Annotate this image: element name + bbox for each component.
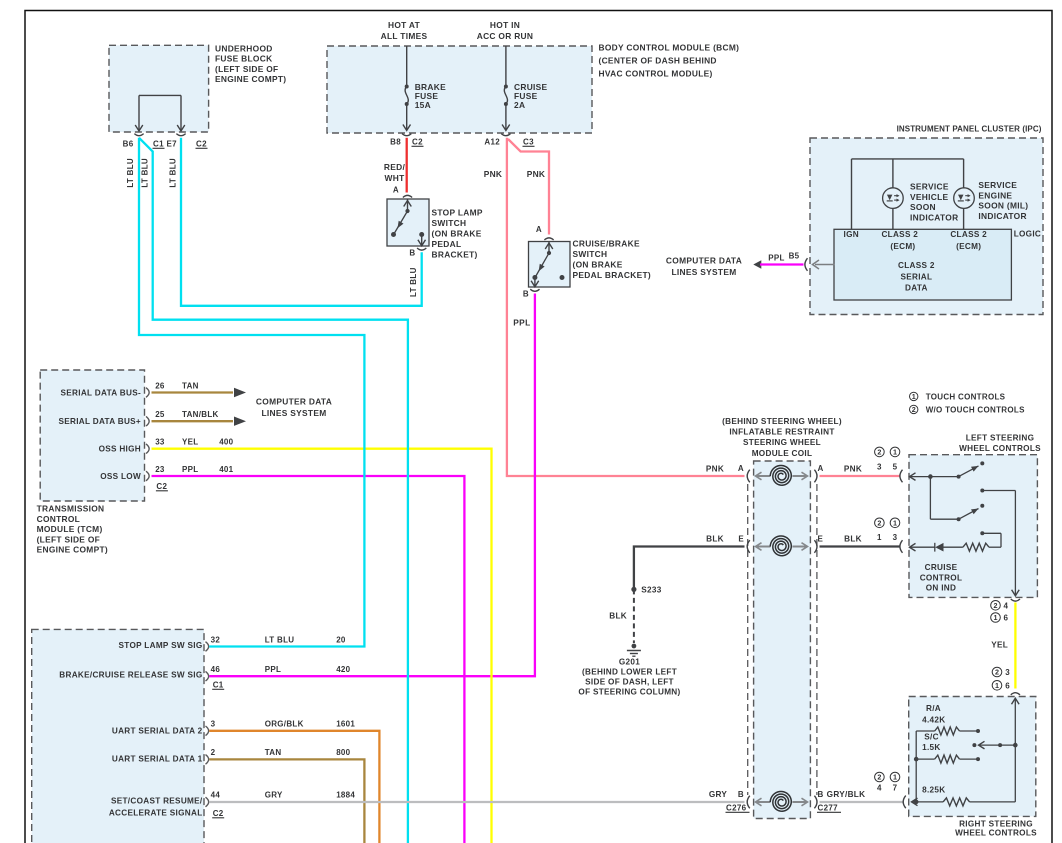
svg-text:CLASS 2: CLASS 2 [898, 261, 935, 270]
svg-text:HOT IN: HOT IN [490, 20, 520, 30]
right controls top connector arc [1011, 693, 1020, 695]
connector arc B6 [134, 134, 143, 136]
svg-text:COMPUTER DATA: COMPUTER DATA [256, 397, 332, 407]
stop lamp switch internal contacts [407, 199, 409, 211]
svg-text:1: 1 [995, 681, 999, 690]
arrow down B6 [135, 125, 143, 131]
resistor 8.25K [912, 798, 918, 806]
transmission control module box [40, 370, 144, 501]
cruise fuse feed wire [505, 46, 507, 85]
connector arc A12 [501, 134, 510, 136]
wire BLK coil to left controls row E [820, 545, 900, 547]
wire PPL to computer data lines [760, 263, 804, 265]
svg-text:STEERING WHEEL: STEERING WHEEL [743, 438, 821, 447]
coil module box [754, 461, 811, 819]
svg-text:GRY/BLK: GRY/BLK [827, 790, 866, 799]
svg-text:B: B [523, 290, 529, 299]
IPC internal bus wires [852, 158, 964, 160]
output node and wire to bottom [980, 489, 984, 493]
underhood fuse block box [109, 45, 209, 132]
svg-text:15A: 15A [415, 100, 431, 110]
left rail [915, 731, 917, 802]
svg-text:IGN: IGN [844, 230, 859, 239]
svg-text:C2: C2 [156, 482, 167, 491]
markers below left controls [991, 601, 1001, 611]
svg-text:WHEEL CONTROLS: WHEEL CONTROLS [959, 444, 1041, 453]
cruise switch B connector arc [530, 289, 539, 291]
svg-text:C2: C2 [412, 138, 423, 147]
svg-text:SWITCH: SWITCH [573, 249, 608, 259]
switch 1 lever [959, 466, 979, 477]
module pin arcs [206, 642, 209, 652]
svg-text:UART SERIAL DATA 2: UART SERIAL DATA 2 [112, 726, 203, 735]
switch 1 contact [980, 461, 984, 465]
cruise switch internal contacts [548, 242, 550, 254]
wiper arm wire [1013, 743, 1018, 748]
wire PPL from cruise switch B to BCM pin 46 [209, 294, 535, 677]
wire LT BLU from B6 to bottom [139, 138, 408, 843]
left controls row E arrow [910, 543, 916, 551]
svg-text:46: 46 [211, 665, 221, 674]
svg-text:CLASS 2: CLASS 2 [881, 230, 918, 239]
cruise on ind diode [934, 543, 936, 552]
svg-text:SERVICE: SERVICE [910, 182, 949, 192]
svg-text:COMPUTER DATA: COMPUTER DATA [666, 256, 742, 266]
svg-text:BRACKET): BRACKET) [432, 250, 478, 260]
left controls row A arrow [910, 473, 916, 481]
svg-text:S233: S233 [641, 586, 661, 595]
svg-text:SET/COAST RESUME/: SET/COAST RESUME/ [111, 796, 203, 805]
left steering wheel controls box [909, 455, 1037, 598]
svg-text:CRUISE: CRUISE [925, 563, 958, 572]
svg-text:S/C: S/C [924, 733, 939, 742]
svg-text:LOGIC: LOGIC [1014, 230, 1041, 239]
wire ORG/BLK 1601 uart serial data 2 [209, 731, 379, 843]
svg-text:(BEHIND STEERING WHEEL): (BEHIND STEERING WHEEL) [722, 417, 842, 426]
svg-text:WHT: WHT [385, 173, 406, 183]
svg-text:MODULE COIL: MODULE COIL [752, 449, 813, 458]
svg-text:(ON BRAKE: (ON BRAKE [432, 229, 482, 239]
svg-text:(ECM): (ECM) [956, 242, 981, 251]
svg-text:UART SERIAL DATA 1: UART SERIAL DATA 1 [112, 754, 203, 763]
IPC connector arc B5 [805, 258, 808, 271]
svg-text:(LEFT SIDE OF: (LEFT SIDE OF [37, 534, 100, 544]
svg-text:LT BLU: LT BLU [126, 158, 135, 188]
svg-text:SOON (MIL): SOON (MIL) [978, 201, 1028, 211]
coil connector arc B left [747, 796, 750, 809]
IPC internal arrow left [815, 264, 834, 266]
svg-text:FUSE BLOCK: FUSE BLOCK [215, 54, 272, 64]
svg-text:7: 7 [893, 784, 898, 793]
svg-text:TAN: TAN [182, 382, 199, 391]
right steering wheel controls box [909, 697, 1036, 817]
body control module box [327, 46, 592, 133]
coil spiral B [770, 791, 791, 811]
svg-text:B: B [818, 790, 824, 799]
svg-text:SERIAL DATA BUS+: SERIAL DATA BUS+ [58, 417, 141, 426]
svg-text:PPL: PPL [513, 318, 530, 328]
svg-text:LT BLU: LT BLU [409, 267, 418, 297]
svg-text:ORG/BLK: ORG/BLK [265, 720, 304, 729]
svg-text:ENGINE COMPT): ENGINE COMPT) [215, 74, 286, 84]
IPC logic inner box [834, 229, 1011, 300]
brake fuse feed wire [406, 46, 408, 85]
svg-text:B6: B6 [123, 140, 134, 149]
wire PPL oss low 401 [152, 476, 465, 843]
cruise on ind resistor [963, 543, 989, 551]
svg-text:2: 2 [995, 668, 999, 677]
coil connector arc A right [814, 470, 817, 483]
coil connector arc E left [747, 540, 750, 553]
wire BLK dashed to ground [633, 589, 635, 643]
svg-text:1: 1 [893, 773, 897, 782]
svg-text:A: A [738, 464, 744, 473]
svg-text:ACCELERATE SIGNAL: ACCELERATE SIGNAL [109, 808, 203, 817]
resistor S/C 1.5K [914, 757, 919, 762]
wire RED/WHT from B8 to stop lamp switch A [406, 138, 408, 193]
svg-text:400: 400 [219, 438, 233, 447]
svg-text:(BEHIND LOWER LEFT: (BEHIND LOWER LEFT [582, 667, 677, 676]
svg-text:1.5K: 1.5K [922, 743, 941, 752]
svg-text:2A: 2A [514, 100, 525, 110]
svg-text:1: 1 [893, 448, 897, 457]
svg-text:E7: E7 [167, 140, 178, 149]
svg-text:25: 25 [155, 410, 165, 419]
svg-text:GRY: GRY [709, 790, 728, 799]
svg-text:HVAC CONTROL MODULE): HVAC CONTROL MODULE) [599, 69, 713, 79]
svg-text:TAN: TAN [265, 748, 282, 757]
svg-text:PPL: PPL [768, 253, 784, 262]
svg-text:B5: B5 [789, 252, 800, 261]
svg-text:PPL: PPL [182, 465, 198, 474]
svg-text:WHEEL CONTROLS: WHEEL CONTROLS [955, 829, 1037, 838]
svg-text:33: 33 [155, 438, 165, 447]
svg-text:R/A: R/A [926, 704, 941, 713]
coil row A internal wire and arrows [757, 475, 771, 477]
svg-text:2: 2 [912, 405, 916, 414]
svg-text:PNK: PNK [484, 169, 503, 179]
wire TAN 800 uart serial data 1 [209, 759, 364, 843]
svg-text:1884: 1884 [336, 791, 355, 800]
svg-text:PNK: PNK [706, 465, 724, 474]
svg-text:INSTRUMENT PANEL CLUSTER (IPC): INSTRUMENT PANEL CLUSTER (IPC) [897, 125, 1042, 134]
svg-text:1: 1 [994, 613, 998, 622]
junction dot row A [928, 474, 933, 479]
svg-text:OSS HIGH: OSS HIGH [99, 445, 141, 454]
svg-text:SERIAL: SERIAL [900, 272, 932, 281]
svg-text:LT BLU: LT BLU [141, 158, 150, 188]
svg-text:800: 800 [336, 748, 350, 757]
svg-text:26: 26 [155, 382, 165, 391]
arrow down A12 [505, 127, 507, 131]
coil connector arc B right [814, 796, 817, 809]
wire TAN serial data bus- [152, 391, 234, 393]
svg-text:3: 3 [877, 462, 882, 471]
svg-text:CLASS 2: CLASS 2 [950, 230, 987, 239]
svg-text:E: E [818, 535, 824, 544]
svg-text:A: A [393, 186, 399, 195]
svg-text:G201: G201 [619, 657, 640, 666]
markers row E [875, 518, 885, 528]
ground G201 [632, 644, 637, 649]
svg-text:32: 32 [211, 636, 221, 645]
svg-text:LINES SYSTEM: LINES SYSTEM [671, 267, 736, 277]
arrow down E7 [177, 125, 185, 131]
legend touch controls [910, 392, 918, 400]
svg-text:23: 23 [155, 465, 165, 474]
svg-text:BLK: BLK [609, 612, 627, 621]
svg-text:INDICATOR: INDICATOR [910, 212, 958, 222]
svg-text:A: A [536, 225, 542, 234]
svg-text:OSS LOW: OSS LOW [100, 472, 141, 481]
svg-text:SWITCH: SWITCH [432, 218, 467, 228]
stop lamp switch A connector arc [403, 195, 412, 197]
svg-text:LT BLU: LT BLU [265, 636, 295, 645]
wire YEL oss high 400 [152, 449, 492, 843]
svg-text:GRY: GRY [265, 791, 283, 800]
svg-text:B: B [738, 790, 744, 799]
svg-text:YEL: YEL [991, 641, 1008, 650]
right controls input arrow up [1014, 698, 1016, 745]
markers row A [875, 447, 885, 457]
arrow to computer data lines [753, 260, 761, 268]
switch 2 lever [959, 509, 979, 520]
svg-text:1: 1 [893, 518, 897, 527]
markers row B [875, 772, 885, 782]
switch 1 pivot [957, 475, 961, 479]
wire GRY/BLK coil to right controls [820, 801, 903, 803]
instrument panel cluster box [810, 138, 1043, 315]
svg-text:20: 20 [336, 636, 346, 645]
svg-text:C2: C2 [196, 140, 207, 149]
wire PNK from A12 down to coil row A [507, 138, 745, 476]
svg-text:SERVICE: SERVICE [978, 180, 1017, 190]
svg-text:HOT AT: HOT AT [388, 20, 421, 30]
arrow down B8 [406, 127, 408, 131]
svg-text:DATA: DATA [905, 283, 928, 292]
svg-text:4.42K: 4.42K [922, 715, 945, 724]
svg-text:A12: A12 [484, 138, 500, 147]
svg-text:C2: C2 [213, 809, 224, 818]
svg-text:STOP LAMP: STOP LAMP [432, 208, 483, 218]
svg-text:(CENTER OF DASH BEHIND: (CENTER OF DASH BEHIND [599, 56, 717, 66]
right controls connector arc [903, 796, 906, 809]
coil spiral E [770, 536, 791, 556]
resistor tail to contact [989, 546, 1001, 548]
resistor R/A 4.42K [916, 730, 935, 732]
svg-text:SOON: SOON [910, 202, 936, 212]
svg-text:PNK: PNK [844, 465, 862, 474]
svg-text:2: 2 [877, 518, 881, 527]
svg-text:2: 2 [877, 448, 881, 457]
svg-text:RIGHT STEERING: RIGHT STEERING [959, 820, 1033, 829]
left controls connector arc row A [900, 470, 903, 483]
svg-text:CONTROL: CONTROL [37, 514, 81, 524]
wire PNK coil to left controls [820, 475, 900, 477]
svg-text:1: 1 [877, 533, 882, 542]
svg-text:ALL TIMES: ALL TIMES [381, 31, 428, 41]
svg-text:44: 44 [211, 791, 221, 800]
svg-text:3: 3 [893, 533, 898, 542]
wire GRY 1884 set/coast signal [209, 801, 744, 803]
svg-text:BLK: BLK [706, 535, 724, 544]
wire BLK to coil row E [634, 547, 745, 590]
svg-text:BRAKE/CRUISE RELEASE SW SIG: BRAKE/CRUISE RELEASE SW SIG [59, 670, 202, 679]
TCM pin arcs [146, 388, 149, 398]
service engine soon indicator lamp [954, 188, 975, 209]
svg-text:2: 2 [994, 601, 998, 610]
wire LT BLU 20 stop lamp sw sig [139, 138, 364, 647]
wire PNK branch to cruise/brake switch A [508, 139, 549, 235]
svg-text:ACC OR RUN: ACC OR RUN [477, 31, 534, 41]
svg-text:PNK: PNK [527, 169, 546, 179]
svg-text:ENGINE COMPT): ENGINE COMPT) [37, 545, 108, 555]
svg-text:TOUCH CONTROLS: TOUCH CONTROLS [926, 392, 1006, 401]
svg-text:3: 3 [1005, 668, 1010, 677]
connector arc B8 [402, 134, 411, 136]
svg-text:LT BLU: LT BLU [169, 158, 178, 188]
svg-text:ENGINE: ENGINE [978, 190, 1012, 200]
left controls connector arc row E [900, 540, 903, 553]
svg-text:UNDERHOOD: UNDERHOOD [215, 44, 273, 54]
stop lamp switch box [387, 199, 429, 246]
svg-text:B: B [409, 249, 415, 258]
svg-text:C1: C1 [213, 681, 224, 690]
svg-text:C277: C277 [818, 804, 839, 813]
connector arc E7 [176, 134, 185, 136]
coil connector arc A left [747, 470, 750, 483]
coil row B internal wire and arrows [757, 801, 771, 803]
svg-text:OF STEERING COLUMN): OF STEERING COLUMN) [578, 688, 680, 697]
svg-text:2: 2 [211, 748, 216, 757]
svg-text:CRUISE/BRAKE: CRUISE/BRAKE [573, 239, 640, 249]
cruise control module box [32, 629, 204, 843]
svg-text:C1: C1 [153, 140, 164, 149]
svg-text:(LEFT SIDE OF: (LEFT SIDE OF [215, 64, 278, 74]
switch 2 contact [980, 504, 984, 508]
svg-text:STOP LAMP SW SIG: STOP LAMP SW SIG [119, 641, 203, 650]
splice S233 [631, 587, 636, 592]
svg-text:LINES SYSTEM: LINES SYSTEM [261, 408, 326, 418]
svg-text:RED/: RED/ [384, 162, 406, 172]
svg-text:401: 401 [219, 465, 233, 474]
svg-text:LEFT STEERING: LEFT STEERING [966, 434, 1035, 443]
coil connector arc E right [814, 540, 817, 553]
svg-text:(ON BRAKE: (ON BRAKE [573, 260, 623, 270]
svg-text:A: A [818, 464, 824, 473]
svg-text:4: 4 [1004, 601, 1009, 610]
svg-text:6: 6 [1004, 614, 1009, 623]
left controls bottom connector arc [1011, 599, 1020, 601]
wire LT BLU stop lamp B to E7 [181, 138, 422, 306]
svg-text:CONTROL: CONTROL [920, 573, 963, 582]
svg-text:INFLATABLE RESTRAINT: INFLATABLE RESTRAINT [729, 428, 834, 437]
branch wire to switch 2 [929, 477, 931, 520]
svg-text:1601: 1601 [336, 720, 355, 729]
svg-text:3: 3 [211, 720, 216, 729]
svg-text:YEL: YEL [182, 438, 198, 447]
coil spiral A [770, 465, 791, 485]
svg-text:4: 4 [877, 784, 882, 793]
svg-text:E: E [738, 535, 744, 544]
coil connector face lines [747, 484, 749, 795]
coil row E internal wire and arrows [757, 546, 771, 548]
cruise brake switch box [529, 242, 571, 288]
svg-text:VEHICLE: VEHICLE [910, 192, 949, 202]
svg-text:MODULE (TCM): MODULE (TCM) [37, 524, 103, 534]
svg-text:BODY CONTROL MODULE (BCM): BODY CONTROL MODULE (BCM) [599, 43, 740, 53]
wire YEL between controls [1014, 603, 1016, 689]
cruise fuse F2 [504, 85, 508, 89]
svg-text:8.25K: 8.25K [922, 785, 945, 794]
svg-text:PEDAL BRACKET): PEDAL BRACKET) [573, 270, 652, 280]
svg-text:TAN/BLK: TAN/BLK [182, 410, 219, 419]
svg-text:5: 5 [893, 462, 898, 471]
svg-text:6: 6 [1005, 681, 1010, 690]
svg-text:TRANSMISSION: TRANSMISSION [37, 504, 105, 514]
svg-text:420: 420 [336, 665, 350, 674]
svg-text:W/O TOUCH CONTROLS: W/O TOUCH CONTROLS [926, 405, 1025, 414]
svg-text:1: 1 [912, 392, 916, 401]
svg-text:PPL: PPL [265, 665, 281, 674]
svg-text:2: 2 [877, 773, 881, 782]
switch 2 pivot [957, 517, 961, 521]
svg-text:C3: C3 [523, 138, 534, 147]
svg-text:INDICATOR: INDICATOR [978, 211, 1026, 221]
service vehicle soon indicator lamp [883, 188, 904, 209]
svg-text:SIDE OF DASH, LEFT: SIDE OF DASH, LEFT [585, 678, 674, 687]
svg-text:SERIAL DATA BUS-: SERIAL DATA BUS- [61, 389, 141, 398]
svg-text:B8: B8 [390, 138, 401, 147]
svg-text:(ECM): (ECM) [890, 242, 915, 251]
markers above right controls [992, 667, 1002, 677]
svg-text:BLK: BLK [844, 535, 862, 544]
svg-text:PEDAL: PEDAL [432, 239, 462, 249]
brake fuse F1 [405, 85, 409, 89]
stop lamp switch B connector arc [417, 248, 426, 250]
cruise switch A connector arc [544, 238, 553, 240]
fuse block internal wire [139, 94, 181, 96]
wire TAN/BLK serial data bus+ [152, 420, 234, 422]
svg-text:C276: C276 [726, 804, 747, 813]
svg-text:ON IND: ON IND [926, 584, 956, 593]
